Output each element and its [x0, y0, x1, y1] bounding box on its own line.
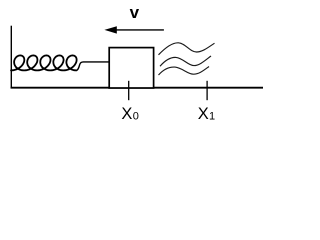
tick x0 — [128, 81, 130, 100]
velocity arrowhead — [104, 26, 116, 33]
spring coil — [11, 55, 77, 70]
tick x1 — [206, 81, 208, 100]
velocity arrow shaft — [114, 29, 164, 31]
wall — [10, 26, 12, 89]
svg-text:X: X — [121, 105, 132, 123]
spring tail wire — [76, 62, 109, 71]
svg-text:v: v — [130, 3, 140, 22]
wavy line 1 — [159, 43, 215, 55]
wavy line 2 — [160, 56, 211, 66]
svg-text:X: X — [198, 105, 209, 123]
ground line — [11, 87, 263, 89]
wavy line 3 — [159, 67, 210, 76]
svg-text:0: 0 — [133, 111, 139, 123]
block — [109, 48, 153, 88]
svg-text:1: 1 — [209, 111, 215, 123]
